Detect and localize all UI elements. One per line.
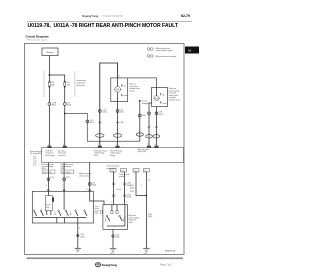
anti-pinch motor box U2 [152, 87, 168, 106]
svg-text:(Twist): (Twist) [116, 188, 121, 191]
wire from triangle down [139, 103, 141, 141]
svg-text:front wiring): front wiring) [46, 154, 55, 157]
svg-text:21: 21 [148, 180, 150, 182]
label box right 1 [133, 169, 139, 173]
svg-text:2: 2 [116, 144, 117, 146]
pin box 5 [147, 144, 151, 148]
left margin text block [30, 150, 42, 155]
svg-text:Page 2 of 2: Page 2 of 2 [160, 264, 172, 266]
svg-text:A16-2(A16): A16-2(A16) [43, 171, 52, 174]
svg-text:3 5R: 3 5R [33, 161, 37, 163]
svg-text:Down: Down [123, 95, 127, 97]
svg-text:(E13): (E13) [89, 122, 94, 124]
riser wire to switch box1 [100, 63, 118, 146]
svg-text:SsangYong: SsangYong [82, 14, 98, 18]
wire switch ground [77, 223, 79, 248]
svg-text:Circuit Diagram: Circuit Diagram [26, 35, 49, 39]
pin box 4 [116, 144, 120, 148]
junction dot right wires [146, 195, 148, 197]
svg-text:KANW8010A: KANW8010A [165, 250, 176, 253]
continuation triangle node [139, 100, 149, 105]
svg-text:relay: relay [46, 207, 50, 209]
wire drop 3 below strip [89, 163, 91, 192]
strip text block E [110, 149, 122, 156]
twisted pair wire 1 [113, 172, 115, 205]
svg-text:62-79: 62-79 [181, 14, 190, 18]
wire right main down [64, 105, 66, 145]
diamond tp1a [112, 182, 115, 186]
svg-text:10A: 10A [67, 83, 71, 86]
pin box 2 [63, 144, 67, 148]
to driver door module text 2 [119, 173, 130, 178]
chapter tab 62 [185, 47, 199, 54]
svg-text:8: 8 [87, 189, 88, 191]
svg-text:window switch: window switch [79, 174, 90, 177]
switch box S1 [32, 191, 93, 223]
bus drops [56, 218, 58, 223]
svg-text:· With anti-pinch system: · With anti-pinch system [26, 39, 48, 42]
svg-text:unit): unit) [95, 212, 99, 215]
svg-text:(window motor): (window motor) [169, 99, 181, 102]
wire drop 1 below strip [47, 163, 49, 192]
diamond box2 left wire [148, 126, 150, 128]
svg-text:C04: C04 [134, 170, 137, 172]
svg-text:wiring): wiring) [110, 154, 115, 157]
connector circle motor gnd [112, 234, 120, 239]
diamond tp1b [112, 194, 115, 198]
label box B [61, 170, 74, 174]
svg-text:(Fuse box): (Fuse box) [77, 85, 86, 87]
pin stub s3 [89, 189, 91, 191]
wire fuse1 down [48, 88, 50, 103]
svg-text:A16-3(A16): A16-3(A16) [62, 171, 71, 174]
wire fuse2 down [64, 88, 66, 103]
box1 label [130, 84, 141, 93]
module connector strip box [42, 148, 184, 163]
wire motor box down [112, 229, 114, 248]
svg-text:(D05): (D05) [92, 185, 97, 187]
diamond on riser [99, 121, 101, 123]
svg-text:(D05): (D05) [148, 216, 153, 218]
wire label right B [148, 214, 153, 218]
svg-text:(E13): (E13) [67, 105, 72, 107]
right wire A elbow to junction [136, 172, 146, 196]
switch contact row [33, 210, 87, 216]
svg-text:0.5G: 0.5G [50, 177, 54, 179]
wire pin3 down [90, 191, 94, 201]
strip text block B [58, 149, 66, 156]
svg-text:2 2G: 2 2G [33, 159, 37, 161]
svg-text:G401: G401 [144, 253, 148, 255]
svg-text:C05: C05 [144, 170, 147, 172]
svg-text:2: 2 [111, 202, 112, 204]
connector circle drop1 [47, 178, 50, 181]
svg-text:main switch: main switch [107, 167, 116, 170]
junction box outline [43, 71, 45, 97]
svg-text:(D05): (D05) [80, 236, 85, 238]
svg-text:4: 4 [46, 185, 47, 187]
motor box bottom bus [107, 225, 125, 227]
diamond switch ground wire [77, 234, 85, 238]
pin box 1 [47, 144, 51, 148]
svg-text:(D05): (D05) [159, 114, 164, 116]
footer rule [27, 257, 184, 259]
legend row 2 [147, 55, 177, 58]
svg-text:M: M [156, 96, 158, 100]
connector circle box2 right pin [155, 112, 163, 116]
connector circle on triangle wire [138, 114, 146, 117]
svg-text:Up: Up [162, 94, 164, 96]
inline connector oval box2 right [153, 135, 160, 138]
svg-text:M: M [116, 88, 119, 92]
motor box label right [129, 214, 140, 224]
connector circle C2 [63, 102, 71, 106]
motor box M1 [103, 205, 128, 230]
wire into sub box [47, 191, 49, 195]
left stub into motor box [100, 211, 103, 214]
svg-text:(D05): (D05) [120, 112, 125, 114]
svg-text:30A: 30A [51, 83, 55, 86]
junction box label [76, 79, 87, 87]
svg-text:(D05): (D05) [103, 112, 108, 114]
wire feed box1 to box2 [128, 78, 157, 88]
battery B1 [42, 48, 58, 56]
svg-text:POWER WINDOW: POWER WINDOW [103, 15, 124, 18]
node battery branch junction [49, 74, 51, 76]
connector circle drop2 [63, 178, 66, 181]
svg-text:6: 6 [155, 144, 156, 146]
wire branch right to riser [65, 114, 140, 142]
ground G3 [110, 248, 116, 255]
h-bridge blade left [105, 215, 110, 221]
switch box label [79, 172, 92, 177]
wire drop 2 below strip [63, 163, 65, 192]
inline connector oval box1 wire [113, 134, 121, 138]
svg-text:2: 2 [79, 228, 80, 230]
inline connector oval triangle wire [136, 133, 143, 136]
left margin list [33, 157, 37, 167]
ground G1 switch [75, 248, 81, 251]
strip text block D [138, 148, 150, 153]
svg-text:module: module [119, 176, 125, 178]
fuse F2 [64, 81, 71, 88]
svg-text:0.5B: 0.5B [142, 115, 146, 117]
wire branch to fuse 2 [49, 75, 64, 82]
svg-text:1: 1 [126, 202, 127, 204]
label box A [42, 170, 55, 174]
auto switch sub box [45, 196, 54, 211]
connector circle below box1 [116, 110, 124, 114]
diagram frame [25, 44, 185, 255]
svg-text:62: 62 [188, 49, 192, 53]
svg-text:(D05): (D05) [94, 155, 99, 157]
twisted pair wire 2 [124, 172, 126, 205]
svg-text:Down: Down [162, 103, 166, 105]
svg-text:5 2L: 5 2L [33, 165, 36, 167]
fuse F1 [48, 81, 55, 88]
motor box label left [95, 205, 100, 215]
svg-text:Battery: Battery [47, 51, 55, 54]
svg-text:0.5R: 0.5R [66, 177, 70, 179]
connector circle on riser branch [86, 120, 94, 124]
svg-text:(D05): (D05) [127, 197, 132, 199]
right wire B long to ground [145, 172, 147, 248]
svg-text:2: 2 [62, 185, 63, 187]
svg-text:I/P wiring (E13): I/P wiring (E13) [30, 152, 42, 155]
svg-text:(D05): (D05) [115, 237, 120, 239]
strip text block A [46, 150, 55, 156]
pin stub s2 [63, 189, 65, 191]
svg-text:Up: Up [123, 86, 125, 88]
box2 label [169, 87, 181, 102]
svg-text:0.5B: 0.5B [120, 122, 124, 124]
text above label box B [61, 163, 73, 170]
text above label box A [42, 163, 54, 170]
footer logo [95, 263, 117, 268]
pin box 6 [154, 144, 158, 148]
svg-text:C06: C06 [121, 170, 124, 172]
diamond box2 right wire [155, 126, 157, 128]
svg-text:3: 3 [119, 76, 120, 78]
wire left main down [48, 105, 50, 145]
svg-text:motor: motor [129, 221, 134, 224]
svg-text:8: 8 [63, 144, 64, 146]
svg-text:(D05): (D05) [130, 187, 135, 189]
svg-text:4: 4 [48, 144, 49, 146]
diamond tp2b [123, 194, 126, 198]
svg-text:power window system: power window system [156, 49, 173, 52]
connector circle on riser [98, 110, 107, 114]
svg-text:U0119-78, U011A -78 RIGHT REA: U0119-78, U011A -78 RIGHT REAR ANTI-PINC… [28, 23, 179, 29]
svg-text:0.5B: 0.5B [130, 191, 134, 193]
svg-text:1: 1 [141, 184, 142, 186]
connector circle C1 [48, 102, 57, 106]
ground G4 [143, 248, 149, 255]
label box tdm2 [121, 169, 127, 173]
wire box1 down [117, 102, 119, 146]
svg-text:defogger: defogger [142, 102, 149, 105]
pin box 3 [98, 144, 102, 148]
diamond tp2a [123, 182, 126, 186]
connector circle box2 left pin [148, 112, 151, 115]
box2 bottom wires [149, 103, 152, 146]
strip text block C [94, 149, 107, 156]
label box tdm1 [110, 169, 116, 173]
svg-text:4 5Y: 4 5Y [33, 163, 37, 165]
h-bridge inner vertical [124, 205, 126, 226]
h-bridge center contacts [111, 205, 118, 214]
wire switch to motor box [93, 201, 104, 205]
inline connector oval box2 left [146, 135, 153, 138]
svg-text:1: 1 [98, 144, 99, 146]
inline connector oval riser [96, 134, 104, 138]
svg-text:switch): switch) [130, 90, 136, 93]
legend row 1 [147, 47, 173, 52]
svg-text:AUTO: AUTO [46, 204, 51, 207]
switch bus line [34, 217, 87, 219]
h-bridge blade right [119, 215, 125, 221]
svg-text:connector: connector [58, 154, 66, 157]
diamond below box1 [116, 121, 124, 124]
wire pin2 down [63, 191, 65, 210]
svg-text:: With general power window: : With general power window [155, 55, 177, 58]
back-up window switch box U1 [111, 78, 128, 102]
pin stub s1 [47, 189, 49, 191]
svg-text:(E13): (E13) [52, 105, 57, 107]
connector circle drop3 [88, 183, 91, 186]
node branch at y113 [64, 113, 66, 115]
svg-text:G401: G401 [110, 253, 114, 255]
wire battery down [48, 56, 50, 82]
svg-text:1 2B: 1 2B [33, 157, 36, 159]
svg-text:SsangYong: SsangYong [102, 263, 118, 267]
svg-text:wiring (D05): wiring (D05) [138, 150, 148, 153]
header rule [27, 21, 192, 23]
label box right 2 [143, 169, 149, 173]
svg-text:5: 5 [148, 144, 149, 146]
to driver door module text [107, 165, 121, 170]
